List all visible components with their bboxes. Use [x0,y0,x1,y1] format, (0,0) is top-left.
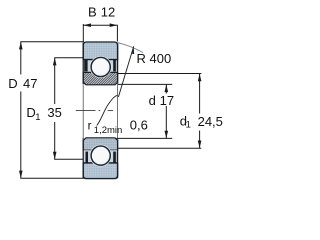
bore silhouette right line [117,82,119,140]
svg-text:1: 1 [35,112,40,123]
dimension D1 line [54,58,56,104]
inner ring top section [83,72,117,84]
D1 bottom arrow [53,152,57,160]
svg-text:d: d [149,93,156,108]
shield flank band top section [83,60,117,73]
dimension D1 extension lines [54,57,83,59]
svg-text:35: 35 [47,105,61,120]
R 400 leader line [118,46,133,97]
B left arrow [83,23,91,27]
dimension B extension lines [82,24,84,42]
R 400 crown arc [117,43,143,53]
svg-text:1,2min: 1,2min [94,125,123,136]
d top arrow [165,85,169,93]
B right arrow [110,23,118,27]
r 1,2min leader line [97,95,118,125]
dimension D extension lines [20,41,84,43]
svg-text:12: 12 [101,4,115,19]
left face line bottom section [82,138,84,178]
svg-text:1: 1 [186,119,191,130]
svg-text:0,6: 0,6 [130,118,148,133]
d bottom arrow [165,131,169,139]
dimension B line [83,24,117,26]
D bottom arrow [19,171,23,179]
svg-text:400: 400 [150,51,172,66]
inner ring bottom section [83,138,117,150]
R 400 leader arrowhead [132,47,134,55]
ball groove halo bottom section [90,145,112,167]
right face line bottom section [117,138,119,178]
svg-text:24,5: 24,5 [198,114,223,129]
centerline axis [76,110,113,112]
left face line top section [82,43,84,85]
arrowheads [19,23,201,178]
right face line top section [117,43,119,85]
outer ring top section [83,42,117,60]
d1 bottom arrow [198,141,202,149]
dimension d1 line [199,74,201,114]
svg-text:47: 47 [23,76,37,91]
svg-text:17: 17 [160,93,174,108]
dimension d extension lines [118,83,172,85]
ball top section [91,57,110,76]
shield flank band bottom section [83,150,117,163]
dimension d1 extension lines [118,73,201,75]
svg-text:B: B [88,4,97,19]
dimension D line [20,42,22,75]
D top arrow [19,42,23,50]
d1 top arrow [198,74,202,82]
outer ring bottom section [83,163,117,179]
dimension d line [165,85,167,94]
svg-text:r: r [88,120,92,132]
bore silhouette left line [82,85,84,141]
ball bottom section [91,146,110,165]
D1 top arrow [53,58,57,66]
ball groove halo top section [90,56,112,78]
svg-text:R: R [137,51,146,66]
svg-text:D: D [8,76,17,91]
